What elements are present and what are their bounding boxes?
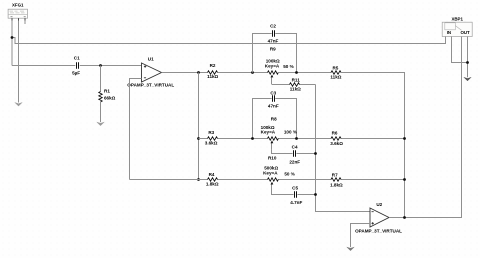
- bode plotter XBP1: [442, 16, 472, 36]
- svg-text:3.6kΩ: 3.6kΩ: [330, 141, 343, 146]
- svg-text:OPAMP_3T_VIRTUAL: OPAMP_3T_VIRTUAL: [127, 83, 174, 88]
- svg-text:R7: R7: [332, 173, 338, 178]
- wire R8 wiper through C4: [272, 149, 316, 153]
- svg-text:11kΩ: 11kΩ: [207, 74, 218, 79]
- svg-text:C2: C2: [270, 24, 276, 29]
- svg-text:4.7nF: 4.7nF: [290, 200, 302, 205]
- junction nodeA row1: [251, 71, 254, 74]
- svg-text:OPAMP_3T_VIRTUAL: OPAMP_3T_VIRTUAL: [355, 229, 402, 234]
- ground under XBP1: [464, 77, 471, 81]
- wire XFG1 minus pin stub: [24, 21, 26, 25]
- function generator XFG1: [8, 2, 27, 18]
- svg-text:IN: IN: [447, 30, 451, 35]
- svg-text:1.8kΩ: 1.8kΩ: [330, 182, 343, 187]
- ground under U2: [347, 247, 354, 251]
- resistor R3: [205, 130, 218, 146]
- op-amp U1: [127, 57, 174, 88]
- wire R9 wiper to R11: [272, 84, 371, 212]
- resistor R7: [330, 173, 343, 188]
- svg-text:Key=A: Key=A: [261, 130, 276, 135]
- wire XFG1 plus pin down: [11, 21, 13, 66]
- svg-text:C3: C3: [270, 91, 276, 96]
- junction nodeB row1: [295, 71, 298, 74]
- capacitor C4: [289, 145, 300, 165]
- svg-text:C5: C5: [292, 185, 298, 190]
- junction row3 feeder: [197, 178, 200, 181]
- row 2 wire: [199, 138, 405, 140]
- junction U2 output bus: [403, 216, 406, 219]
- resistor R6: [330, 131, 343, 146]
- svg-text:C4: C4: [292, 145, 298, 150]
- svg-text:R2: R2: [210, 63, 216, 68]
- resistor R2: [207, 63, 218, 79]
- junction row1 feeder: [197, 71, 200, 74]
- wire XBP1 in pins: [446, 37, 468, 78]
- svg-text:Key=A: Key=A: [265, 63, 280, 68]
- svg-text:R3: R3: [208, 130, 214, 135]
- junction C3 left row2: [251, 137, 254, 140]
- svg-text:5µF: 5µF: [72, 71, 80, 76]
- wire U2 output: [389, 41, 462, 218]
- svg-text:R10: R10: [268, 155, 277, 160]
- svg-text:R8: R8: [271, 116, 277, 121]
- svg-text:Key=A: Key=A: [263, 171, 278, 176]
- svg-text:1.8kΩ: 1.8kΩ: [206, 182, 219, 187]
- capacitor C5: [290, 185, 302, 205]
- junction C3 right row2: [295, 137, 298, 140]
- wire top net to bode plotter: [12, 38, 446, 44]
- capacitor C1: [72, 56, 80, 76]
- svg-text:22nF: 22nF: [289, 159, 300, 164]
- svg-text:50 %: 50 %: [283, 64, 293, 69]
- svg-text:OUT: OUT: [460, 30, 470, 35]
- junction row2 bus: [403, 137, 406, 140]
- XFG1 pins: [12, 18, 25, 21]
- wire U2 plus to ground: [351, 224, 371, 248]
- op-amp U2: [355, 202, 402, 233]
- junction C4 right: [314, 152, 317, 155]
- wire R2 to nodeA: [218, 72, 268, 74]
- potentiometer R10: [263, 155, 295, 190]
- wire C1 to opamp plus input: [80, 65, 142, 67]
- wire R5 to feedback bus corner: [341, 73, 405, 218]
- wire U1 output row1: [162, 72, 208, 74]
- ground under XFG1: [15, 103, 22, 107]
- svg-text:47nF: 47nF: [268, 103, 279, 108]
- svg-text:R6: R6: [332, 131, 338, 136]
- svg-text:3.6kΩ: 3.6kΩ: [205, 141, 218, 146]
- resistor R11: [290, 78, 302, 92]
- resistor R1: [99, 66, 116, 123]
- svg-text:R11: R11: [292, 78, 301, 83]
- capacitor C2 parallel branch: [253, 24, 297, 73]
- capacitor C3 parallel branch: [253, 91, 297, 139]
- junction C5 right: [314, 193, 317, 196]
- svg-text:R1: R1: [104, 88, 110, 93]
- wire nodeA pot to nodeB: [278, 72, 331, 74]
- svg-text:XFG1: XFG1: [12, 2, 24, 7]
- wire U1 feedback to row3: [130, 79, 142, 180]
- wire input row to C1: [12, 65, 75, 67]
- junction row3 bus: [403, 178, 406, 181]
- wire XFG1 common pin down: [18, 21, 20, 103]
- svg-text:C1: C1: [74, 56, 80, 61]
- junction XBP1 ground: [466, 61, 469, 64]
- potentiometer R9: [265, 47, 294, 84]
- wire feeder vertical: [198, 73, 200, 180]
- svg-text:XBP1: XBP1: [451, 16, 463, 21]
- svg-text:66kΩ: 66kΩ: [104, 96, 116, 101]
- svg-text:50 %: 50 %: [284, 171, 294, 176]
- svg-text:U1: U1: [148, 57, 154, 62]
- resistor R4: [206, 172, 219, 187]
- junction row2 feeder: [197, 137, 200, 140]
- svg-text:R5: R5: [332, 65, 338, 70]
- resistor R5: [330, 65, 341, 79]
- potentiometer R8: [261, 116, 297, 149]
- wire R10 wiper through C5: [272, 191, 316, 195]
- row 3 wire: [130, 179, 405, 181]
- svg-text:11kΩ: 11kΩ: [330, 74, 341, 79]
- junction at R1 top: [99, 64, 102, 67]
- svg-text:R9: R9: [270, 47, 276, 52]
- svg-text:U2: U2: [376, 202, 382, 207]
- junction at XFG1 output: [11, 36, 14, 39]
- ground under R1: [97, 122, 104, 126]
- svg-text:R4: R4: [209, 172, 215, 177]
- svg-text:100 %: 100 %: [284, 130, 297, 135]
- svg-text:47nF: 47nF: [268, 39, 279, 44]
- svg-text:11kΩ: 11kΩ: [290, 87, 301, 92]
